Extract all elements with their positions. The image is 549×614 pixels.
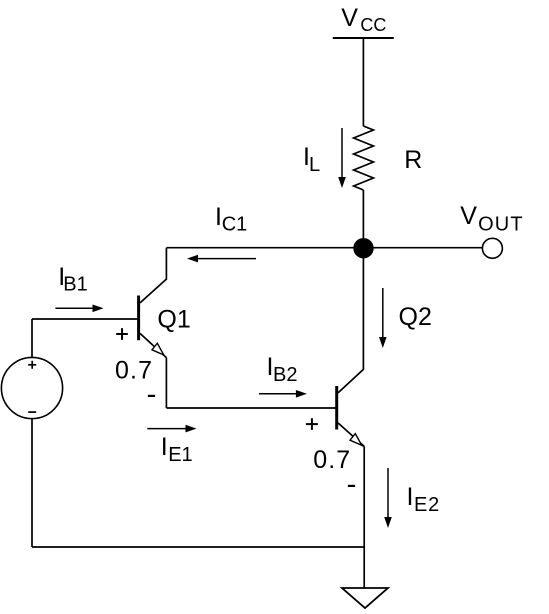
label Q1: [157, 306, 190, 334]
arrow IB2 (base current, right): [259, 390, 307, 398]
label 0.7 (Q2 VBE value): [313, 446, 350, 474]
voltage source V1 (circle): [1, 357, 62, 418]
label + (Q1 VBE polarity): [116, 328, 128, 340]
arrow IE2 (emitter current, down): [384, 468, 392, 528]
transistor Q2 emitter arrowhead (open): [350, 434, 362, 446]
wire node to VOUT terminal: [363, 247, 482, 249]
resistor R (zigzag): [354, 126, 374, 190]
terminal VOUT (open circle): [482, 238, 502, 258]
VCC supply bar: [333, 37, 394, 39]
svg-text:Q1: Q1: [157, 306, 190, 334]
transistor Q1 emitter arrowhead (open): [152, 343, 164, 355]
label IE2: [407, 483, 440, 516]
net VCC label: [341, 4, 386, 35]
arrow IC1 (collector current, left): [187, 255, 256, 263]
label IL: [303, 143, 320, 176]
svg-text:Q2: Q2: [399, 303, 432, 331]
svg-text:CC: CC: [360, 15, 386, 35]
wire Q1 collector to node (top horizontal): [166, 247, 363, 249]
svg-text:0.7: 0.7: [115, 357, 152, 385]
wire source to Q1 base: [32, 318, 139, 320]
label Q2: [399, 303, 432, 331]
wire bottom rail: [32, 546, 364, 548]
transistor Q1 base bar: [137, 296, 140, 341]
svg-text:0.7: 0.7: [313, 446, 350, 474]
wire VCC bar to resistor top: [362, 38, 364, 126]
label IE1: [161, 433, 193, 466]
arrow IB1 (base current, right): [55, 305, 103, 313]
label - (Q1 VBE polarity): [148, 395, 155, 397]
svg-text:OUT: OUT: [478, 214, 522, 236]
svg-text:B2: B2: [273, 364, 297, 386]
wire Q1 emitter down to middle wire: [165, 358, 167, 408]
label R value: [404, 146, 422, 174]
wire bottom rail to ground: [363, 547, 365, 588]
arrow IE1 (emitter current, right): [147, 425, 196, 433]
svg-text:L: L: [309, 154, 320, 176]
wire resistor bottom to output node: [362, 190, 364, 248]
svg-text:I: I: [407, 483, 414, 511]
svg-text:V: V: [341, 4, 358, 32]
wire Q1 emitter to Q2 base (middle horizontal): [166, 407, 336, 409]
transistor Q1 emitter lead: [140, 333, 166, 357]
transistor Q2 base bar: [335, 386, 338, 430]
label - (Q2 VBE polarity): [348, 485, 355, 487]
wire Q2 emitter down to bottom rail: [363, 446, 365, 547]
label + (source polarity): [28, 361, 36, 369]
label VOUT: [460, 202, 522, 236]
label - (source polarity): [28, 411, 36, 413]
label + (Q2 VBE polarity): [306, 418, 318, 430]
label IC1: [215, 203, 247, 235]
arrow IL (load current, down): [338, 128, 346, 188]
node output junction (solder dot): [353, 238, 373, 258]
svg-text:E2: E2: [414, 494, 439, 516]
wire base wire down to source top: [31, 319, 33, 357]
label 0.7 (Q1 VBE value): [115, 357, 152, 385]
svg-text:I: I: [161, 433, 168, 461]
svg-text:V: V: [460, 202, 477, 230]
transistor Q2 emitter lead: [338, 423, 364, 447]
label IB1: [58, 263, 87, 295]
wire source bottom to ground rail: [31, 419, 33, 547]
svg-text:E1: E1: [168, 444, 192, 466]
wire node down to Q2 collector: [338, 248, 363, 393]
arrow Q2 collector current (down): [379, 288, 387, 348]
svg-text:B1: B1: [63, 273, 87, 295]
transistor Q1 collector lead: [140, 248, 166, 303]
svg-text:R: R: [404, 146, 422, 174]
svg-text:C1: C1: [222, 213, 248, 235]
ground symbol: [342, 588, 388, 608]
label IB2: [267, 353, 298, 386]
